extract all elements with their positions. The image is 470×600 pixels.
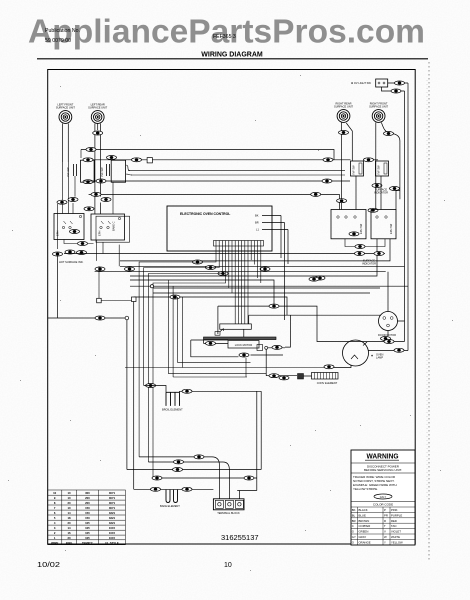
svg-text:TEMP°C: TEMP°C — [82, 541, 93, 545]
svg-text:10: 10 — [67, 506, 71, 510]
svg-text:3321: 3321 — [109, 516, 116, 520]
svg-text:BAKE ELEMENT: BAKE ELEMENT — [160, 504, 180, 508]
oven lamp circle — [343, 340, 369, 366]
connectors on middle bus — [193, 260, 203, 264]
svg-text:COPPER: COPPER — [359, 524, 371, 528]
connector on switch bottom — [83, 180, 93, 184]
svg-text:150: 150 — [85, 511, 90, 515]
connectors left P6 — [53, 252, 63, 256]
svg-text:14: 14 — [67, 511, 71, 515]
wires right switches down — [340, 161, 400, 210]
GN-Y tracer example connector — [374, 494, 392, 499]
left oven switch box A — [54, 214, 84, 240]
svg-text:R: R — [384, 519, 386, 523]
connectors above left boxes — [57, 200, 67, 204]
lower bus wire y181 — [83, 180, 350, 182]
svg-text:V: V — [384, 530, 386, 534]
svg-text:DOOR MOTOR: DOOR MOTOR — [378, 333, 396, 337]
svg-text:SURFACE UNIT: SURFACE UNIT — [369, 105, 388, 109]
right side vertical feed wires — [405, 83, 409, 351]
crossing wires right of switch 2 — [126, 165, 132, 175]
connector igniter row 1 — [269, 374, 279, 378]
left infinite switch 2 — [111, 160, 125, 182]
lock motor box — [228, 341, 259, 349]
connector on y160 bus b — [132, 158, 142, 162]
title rule — [37, 58, 428, 60]
svg-text:TERMINAL BLOCK: TERMINAL BLOCK — [217, 511, 240, 515]
junction node square 2 — [99, 266, 132, 300]
svg-text:3071: 3071 — [109, 501, 116, 505]
svg-text:1015: 1015 — [109, 536, 116, 540]
left infinite switch 1 — [81, 160, 95, 182]
coil right rear surface unit wires — [342, 123, 353, 210]
lock switch boxes — [257, 345, 263, 351]
svg-text:EPH SW: EPH SW — [389, 223, 393, 234]
connector on y194 bus a — [91, 192, 101, 196]
connector on light switch wire 2 — [391, 89, 401, 93]
right oven switch box A — [331, 210, 366, 239]
svg-text:1015: 1015 — [109, 531, 116, 535]
lamp wires — [331, 342, 408, 368]
connector below motor — [381, 337, 391, 341]
svg-text:BROWN: BROWN — [359, 519, 370, 523]
svg-text:WHITE: WHITE — [391, 535, 400, 539]
right infinite switch 1 — [351, 161, 364, 176]
svg-text:BROIL ELEMENT: BROIL ELEMENT — [162, 408, 183, 412]
small pin box with flag — [215, 332, 220, 336]
svg-text:BAKE C: BAKE C — [112, 221, 116, 231]
svg-text:59 0079 00: 59 0079 00 — [45, 38, 71, 44]
lock bracket — [220, 324, 252, 329]
connectors in lock area — [206, 341, 216, 345]
coil right front surface unit wires — [376, 123, 400, 200]
svg-text:PURPLE: PURPLE — [391, 513, 402, 517]
connector igniter row 2 — [279, 376, 289, 380]
connector on lamp wire 1 — [384, 340, 394, 344]
svg-text:YELLOW: YELLOW — [391, 540, 403, 544]
svg-text:SURFACE UNIT: SURFACE UNIT — [334, 105, 353, 109]
connector on y181 bus b — [322, 179, 332, 183]
svg-text:AWG: AWG — [66, 541, 73, 545]
bottom horizontal wires — [127, 391, 261, 499]
svg-text:10: 10 — [53, 491, 57, 495]
svg-text:LOCK MOTOR: LOCK MOTOR — [235, 343, 253, 347]
connector on y149 bus — [86, 148, 96, 152]
svg-text:150: 150 — [85, 516, 90, 520]
svg-text:PINK: PINK — [391, 508, 398, 512]
svg-text:AppliancePartsPros.com: AppliancePartsPros.com — [28, 13, 425, 50]
EOC feed verticals — [281, 216, 288, 321]
svg-text:LAMP: LAMP — [376, 356, 383, 360]
temperature table — [48, 490, 126, 545]
svg-text:BL: BL — [352, 513, 356, 517]
connector below box A — [78, 242, 88, 246]
warning box — [351, 450, 415, 545]
diagram frame — [48, 70, 416, 545]
connector below right rear coil — [339, 131, 349, 135]
connector below right box A — [349, 232, 359, 236]
svg-text:SURFACE UNIT: SURFACE UNIT — [56, 106, 75, 110]
wires from left switches down to oven switches — [63, 150, 113, 215]
svg-text:BK: BK — [352, 508, 356, 512]
svg-text:BLACK: BLACK — [359, 508, 368, 512]
connectors bottom — [174, 460, 184, 464]
connector below right front coil — [384, 132, 394, 136]
svg-text:150: 150 — [85, 506, 90, 510]
svg-text:10: 10 — [224, 562, 232, 569]
svg-text:WIRING DIAGRAM: WIRING DIAGRAM — [201, 52, 263, 59]
bus wire y194 — [89, 193, 340, 195]
svg-text:3321: 3321 — [109, 521, 116, 525]
svg-text:TAN: TAN — [391, 524, 396, 528]
connector inside box A — [70, 230, 80, 234]
broil element — [166, 392, 180, 406]
igniter junction block — [298, 374, 304, 380]
svg-text:VIOLET: VIOLET — [391, 530, 401, 534]
svg-text:200: 200 — [85, 501, 90, 505]
junction node circle 2 — [150, 285, 153, 288]
svg-text:WIRE: WIRE — [51, 541, 58, 545]
broil wires — [144, 349, 267, 469]
EOC pin strip — [214, 241, 264, 247]
connector on left feed — [95, 316, 105, 320]
svg-text:3071: 3071 — [109, 506, 116, 510]
connector on lamp return — [324, 365, 334, 369]
bake element — [166, 490, 178, 503]
box A bottom loop wire — [64, 240, 94, 244]
svg-text:3321: 3321 — [109, 511, 116, 515]
svg-text:CONV ELEMENT: CONV ELEMENT — [317, 381, 338, 385]
right oven switch box B — [371, 210, 396, 239]
svg-text:BR: BR — [352, 519, 356, 523]
connector left of broil element — [146, 384, 156, 388]
svg-text:14: 14 — [67, 526, 71, 530]
svg-text:105: 105 — [85, 536, 90, 540]
svg-text:INF SW: INF SW — [66, 167, 70, 177]
svg-text:10: 10 — [67, 496, 71, 500]
svg-text:FEF365 3: FEF365 3 — [213, 34, 236, 40]
svg-text:INF SW: INF SW — [352, 165, 356, 175]
upper bus wire y160 — [83, 159, 378, 161]
svg-text:INDICATOR: INDICATOR — [362, 262, 376, 266]
svg-text:3071: 3071 — [109, 496, 116, 500]
svg-text:3071: 3071 — [109, 491, 116, 495]
svg-text:ELECTRONIC OVEN CONTROL: ELECTRONIC OVEN CONTROL — [180, 212, 230, 216]
connectors below right switches — [372, 184, 382, 188]
wire below right oven switch B — [118, 245, 120, 267]
lock area wires — [191, 340, 285, 357]
svg-text:1015: 1015 — [109, 526, 116, 530]
svg-text:W: W — [384, 535, 387, 539]
wires below left oven switches — [97, 240, 104, 261]
svg-text:10/02: 10/02 — [37, 562, 60, 569]
coil left front surface unit wires — [63, 124, 69, 163]
svg-text:GREEN: GREEN — [359, 530, 369, 534]
right infinite switch 2 — [376, 161, 389, 176]
svg-text:UL STYLE: UL STYLE — [105, 541, 119, 545]
svg-text:P: P — [384, 508, 386, 512]
svg-text:316255137: 316255137 — [221, 533, 259, 542]
svg-text:105: 105 — [85, 526, 90, 530]
connector on y160 bus d — [364, 158, 374, 162]
svg-text:EPH: EPH — [98, 231, 102, 236]
svg-text:Publication No.: Publication No. — [45, 28, 80, 34]
motor wires — [388, 272, 405, 336]
svg-text:G: G — [352, 530, 354, 534]
connector on right coil feed — [337, 199, 347, 203]
svg-text:16: 16 — [67, 531, 71, 535]
link wire between right boxes — [345, 239, 385, 247]
lock cam bar — [204, 337, 277, 340]
svg-text:T: T — [384, 524, 386, 528]
junction square on y160 — [147, 158, 152, 163]
connector below left rear coil — [93, 131, 103, 135]
svg-text:105: 105 — [85, 521, 90, 525]
svg-text:300: 300 — [85, 491, 90, 495]
svg-text:RED: RED — [391, 519, 397, 523]
wire left column — [57, 204, 59, 249]
connector on light switch wire 1 — [395, 81, 405, 85]
svg-text:WARNING: WARNING — [367, 451, 399, 460]
surface unit coil left rear — [91, 111, 104, 124]
svg-text:INF SW: INF SW — [100, 167, 104, 177]
svg-text:20: 20 — [67, 501, 71, 505]
svg-text:GRAY: GRAY — [359, 535, 367, 539]
svg-text:GY: GY — [352, 535, 356, 539]
svg-text:INF SW: INF SW — [377, 165, 381, 175]
svg-text:PR: PR — [384, 513, 388, 517]
wire from light switch to right bus — [382, 83, 409, 91]
svg-text:20: 20 — [67, 536, 71, 540]
electronic oven control box — [167, 206, 272, 251]
svg-text:GN-Y: GN-Y — [380, 495, 387, 499]
svg-text:EPH SW: EPH SW — [359, 223, 363, 234]
middle bus lines — [64, 239, 408, 347]
oven motor circle — [379, 312, 398, 331]
left oven switch box B — [91, 214, 125, 240]
upper bus wire y149 — [81, 150, 334, 160]
oven light switch — [376, 79, 388, 87]
mid horizontals to elements — [125, 297, 331, 377]
svg-text:YELLOW STRIPE.: YELLOW STRIPE. — [353, 487, 378, 491]
svg-text:105: 105 — [85, 531, 90, 535]
oven vent element — [312, 373, 339, 380]
surface unit coil right rear — [337, 110, 350, 123]
connector on y160 bus c — [323, 158, 333, 162]
connector above switch 2 — [107, 156, 117, 160]
terminal block — [213, 499, 244, 510]
left feed wire — [48, 256, 134, 489]
connector on y181 bus a — [96, 179, 106, 183]
coil left rear surface unit wires — [95, 124, 101, 215]
svg-text:COLOR CODE: COLOR CODE — [373, 503, 393, 507]
EOC pin drop wires — [139, 246, 261, 478]
igniter row — [266, 375, 312, 377]
svg-text:BLUE: BLUE — [359, 513, 366, 517]
svg-text:ORANGE: ORANGE — [359, 540, 371, 544]
connector right of broil element — [182, 389, 192, 393]
svg-text:C: C — [352, 524, 354, 528]
junction node square — [132, 297, 137, 302]
scan speckles — [8, 75, 453, 571]
svg-text:BR: BR — [255, 221, 259, 225]
svg-text:BK: BK — [255, 214, 259, 218]
connector on y194 bus b — [311, 192, 321, 196]
surface unit coil right front — [372, 110, 385, 123]
connector on lamp wire 2 — [394, 348, 404, 352]
scan noise column — [428, 62, 430, 560]
connector on y160 bus a — [83, 158, 93, 162]
svg-text:BEFORE SERVICING UNIT.: BEFORE SERVICING UNIT. — [364, 468, 402, 472]
svg-text:20: 20 — [67, 521, 71, 525]
svg-text:18: 18 — [67, 516, 71, 520]
svg-text:Y: Y — [384, 540, 386, 544]
bus wires y170 y175 — [128, 170, 345, 175]
svg-text:200: 200 — [85, 496, 90, 500]
junction node circle — [125, 316, 129, 320]
svg-text:HOT SURFACE IND.: HOT SURFACE IND. — [59, 260, 84, 264]
svg-text:SURFACE UNIT: SURFACE UNIT — [88, 106, 107, 110]
svg-text:✱ OV LIGHT SW: ✱ OV LIGHT SW — [351, 81, 371, 85]
svg-text:10: 10 — [67, 491, 71, 495]
surface unit coil left front — [59, 111, 72, 124]
